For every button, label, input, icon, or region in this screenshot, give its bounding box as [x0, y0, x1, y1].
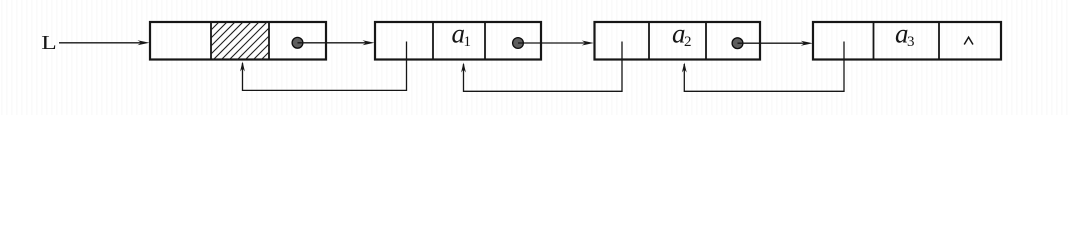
node1 hatched cell	[173, 20, 301, 60]
node3 divider 1	[648, 22, 650, 60]
wire node1 to node2	[298, 40, 375, 45]
node2 divider 2	[484, 22, 486, 60]
node2 pointer dot	[513, 38, 524, 49]
node4 divider 1	[873, 22, 875, 60]
node1 pointer dot	[292, 37, 303, 48]
node2 label a1	[452, 18, 472, 50]
svg-text:2: 2	[684, 34, 692, 50]
node3 box	[595, 22, 761, 60]
node4 box	[813, 22, 1001, 60]
wire back node2 to node1	[240, 42, 406, 91]
node1 divider 1	[210, 22, 212, 60]
node4 label a3	[895, 18, 915, 50]
node3 pointer dot	[732, 38, 743, 49]
svg-text:3: 3	[907, 34, 915, 50]
node4 divider 2	[938, 22, 940, 60]
node2 divider 1	[432, 22, 434, 60]
node2 box	[375, 22, 541, 60]
wire L to node1	[59, 40, 150, 45]
wire back node3 to node2	[461, 42, 622, 92]
node3 label a2	[672, 18, 692, 50]
node3 divider 2	[705, 22, 707, 60]
wire node2 to node3	[518, 41, 594, 46]
node1 box	[150, 22, 326, 60]
wire back node4 to node3	[682, 42, 844, 92]
wire node3 to node4	[738, 41, 813, 46]
svg-text:1: 1	[464, 34, 472, 50]
node4 null mark	[964, 37, 973, 44]
node1 divider 2	[268, 22, 270, 60]
svg-text:L: L	[41, 32, 56, 54]
node L label	[41, 32, 56, 54]
